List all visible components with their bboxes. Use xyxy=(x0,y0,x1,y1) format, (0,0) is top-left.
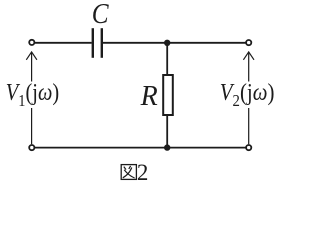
resistor R bottom lead xyxy=(166,116,168,148)
terminal top-left xyxy=(29,40,34,45)
V2 arrow stem lower xyxy=(248,108,250,144)
caption figure-2 numeral xyxy=(137,160,149,185)
V1 arrow stem lower xyxy=(31,108,33,144)
svg-text:C: C xyxy=(92,0,109,29)
svg-text:R: R xyxy=(140,81,158,112)
wire top-right segment xyxy=(103,42,246,44)
label V1(jw) xyxy=(6,79,59,111)
resistor R body xyxy=(163,75,173,115)
label R xyxy=(140,81,158,112)
V1 arrow stem upper xyxy=(31,52,33,81)
V2 arrow head xyxy=(243,52,254,60)
caption figure-2 box (zu) xyxy=(121,165,136,180)
bottom wire xyxy=(35,147,246,149)
V2 arrow stem upper xyxy=(248,52,250,81)
svg-text:V1(jω): V1(jω) xyxy=(6,79,59,111)
capacitor C right plate xyxy=(101,28,103,58)
resistor R top lead xyxy=(166,43,168,75)
junction node bottom xyxy=(164,144,170,150)
capacitor C left plate xyxy=(92,28,94,58)
terminal bottom-left xyxy=(29,145,34,150)
terminal top-right xyxy=(246,40,251,45)
terminal bottom-right xyxy=(246,145,251,150)
label V2(jw) xyxy=(220,79,275,110)
svg-text:2: 2 xyxy=(137,160,149,185)
label C xyxy=(92,0,109,29)
junction node top xyxy=(164,40,170,46)
V1 arrow head xyxy=(26,52,37,60)
wire top-left segment xyxy=(35,42,92,44)
svg-text:V2(jω): V2(jω) xyxy=(220,79,275,110)
